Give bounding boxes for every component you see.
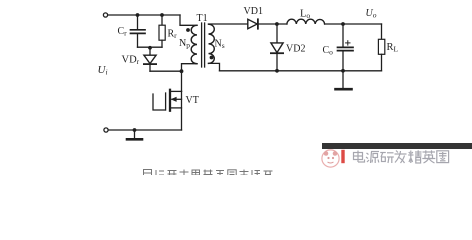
svg-text:VD2: VD2 (286, 44, 305, 55)
svg-text:Cr: Cr (118, 26, 128, 38)
svg-text:RL: RL (387, 42, 399, 54)
svg-text:Co: Co (323, 45, 334, 57)
svg-text:Ns: Ns (215, 39, 225, 51)
svg-text:Np: Np (179, 38, 190, 50)
svg-text:Rr: Rr (168, 29, 178, 41)
svg-text:Uo: Uo (366, 8, 377, 20)
svg-text:VT: VT (186, 95, 199, 106)
svg-text:T1: T1 (197, 13, 208, 24)
svg-text:VD1: VD1 (244, 6, 263, 17)
svg-text:Lo: Lo (300, 9, 310, 21)
svg-text:VDr: VDr (122, 55, 140, 67)
